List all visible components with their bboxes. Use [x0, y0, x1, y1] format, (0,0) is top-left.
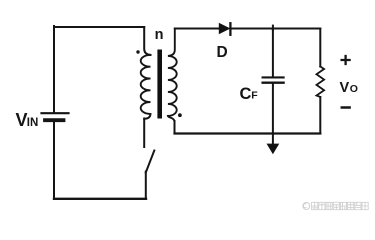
transformer primary winding	[141, 55, 151, 119]
ground arrow	[267, 144, 278, 153]
svg-text:F: F	[251, 89, 258, 101]
capacitor CF top plate	[263, 76, 284, 78]
wire primary left rail upper	[53, 26, 55, 112]
plus sign output	[342, 56, 350, 64]
transformer core	[157, 50, 162, 119]
wire secondary bottom rail	[175, 132, 321, 134]
wire primary vertical to transformer	[144, 27, 150, 55]
wire primary bottom rail	[54, 198, 146, 200]
wire to ground	[272, 134, 274, 147]
svg-text:D: D	[217, 44, 228, 61]
wire primary to switch	[143, 119, 145, 148]
diode D cathode bar	[229, 23, 231, 35]
battery VIN short thick plate	[45, 118, 64, 122]
resistor load zigzag	[317, 67, 325, 98]
wire capacitor branch upper	[272, 29, 274, 77]
wire switch to bottom rail	[145, 172, 147, 199]
svg-text:IN: IN	[27, 117, 39, 129]
wire secondary top rail right of diode	[230, 28, 320, 30]
minus sign output	[342, 106, 350, 109]
capacitor CF bottom plate	[263, 82, 284, 84]
wire primary top rail	[54, 26, 144, 28]
wire primary left rail lower	[53, 122, 55, 199]
watermark juejin community	[303, 203, 310, 210]
svg-text:n: n	[155, 27, 164, 43]
wire load branch upper	[319, 29, 321, 67]
wire capacitor branch lower	[272, 84, 274, 134]
battery VIN long plate	[42, 112, 69, 114]
svg-text:V: V	[16, 110, 28, 130]
wire secondary bottom vertical	[174, 121, 176, 133]
junction stub above capacitor node	[272, 26, 274, 30]
svg-text:O: O	[350, 83, 358, 95]
svg-text:C: C	[240, 85, 252, 103]
wire load branch lower	[319, 97, 321, 134]
transformer secondary winding	[168, 29, 177, 123]
wire secondary top rail left of diode	[175, 28, 219, 30]
diode D triangle	[219, 24, 229, 34]
polarity dot primary	[136, 50, 139, 53]
polarity dot secondary	[178, 113, 182, 117]
svg-text:V: V	[340, 80, 350, 96]
switch blade	[146, 151, 155, 173]
